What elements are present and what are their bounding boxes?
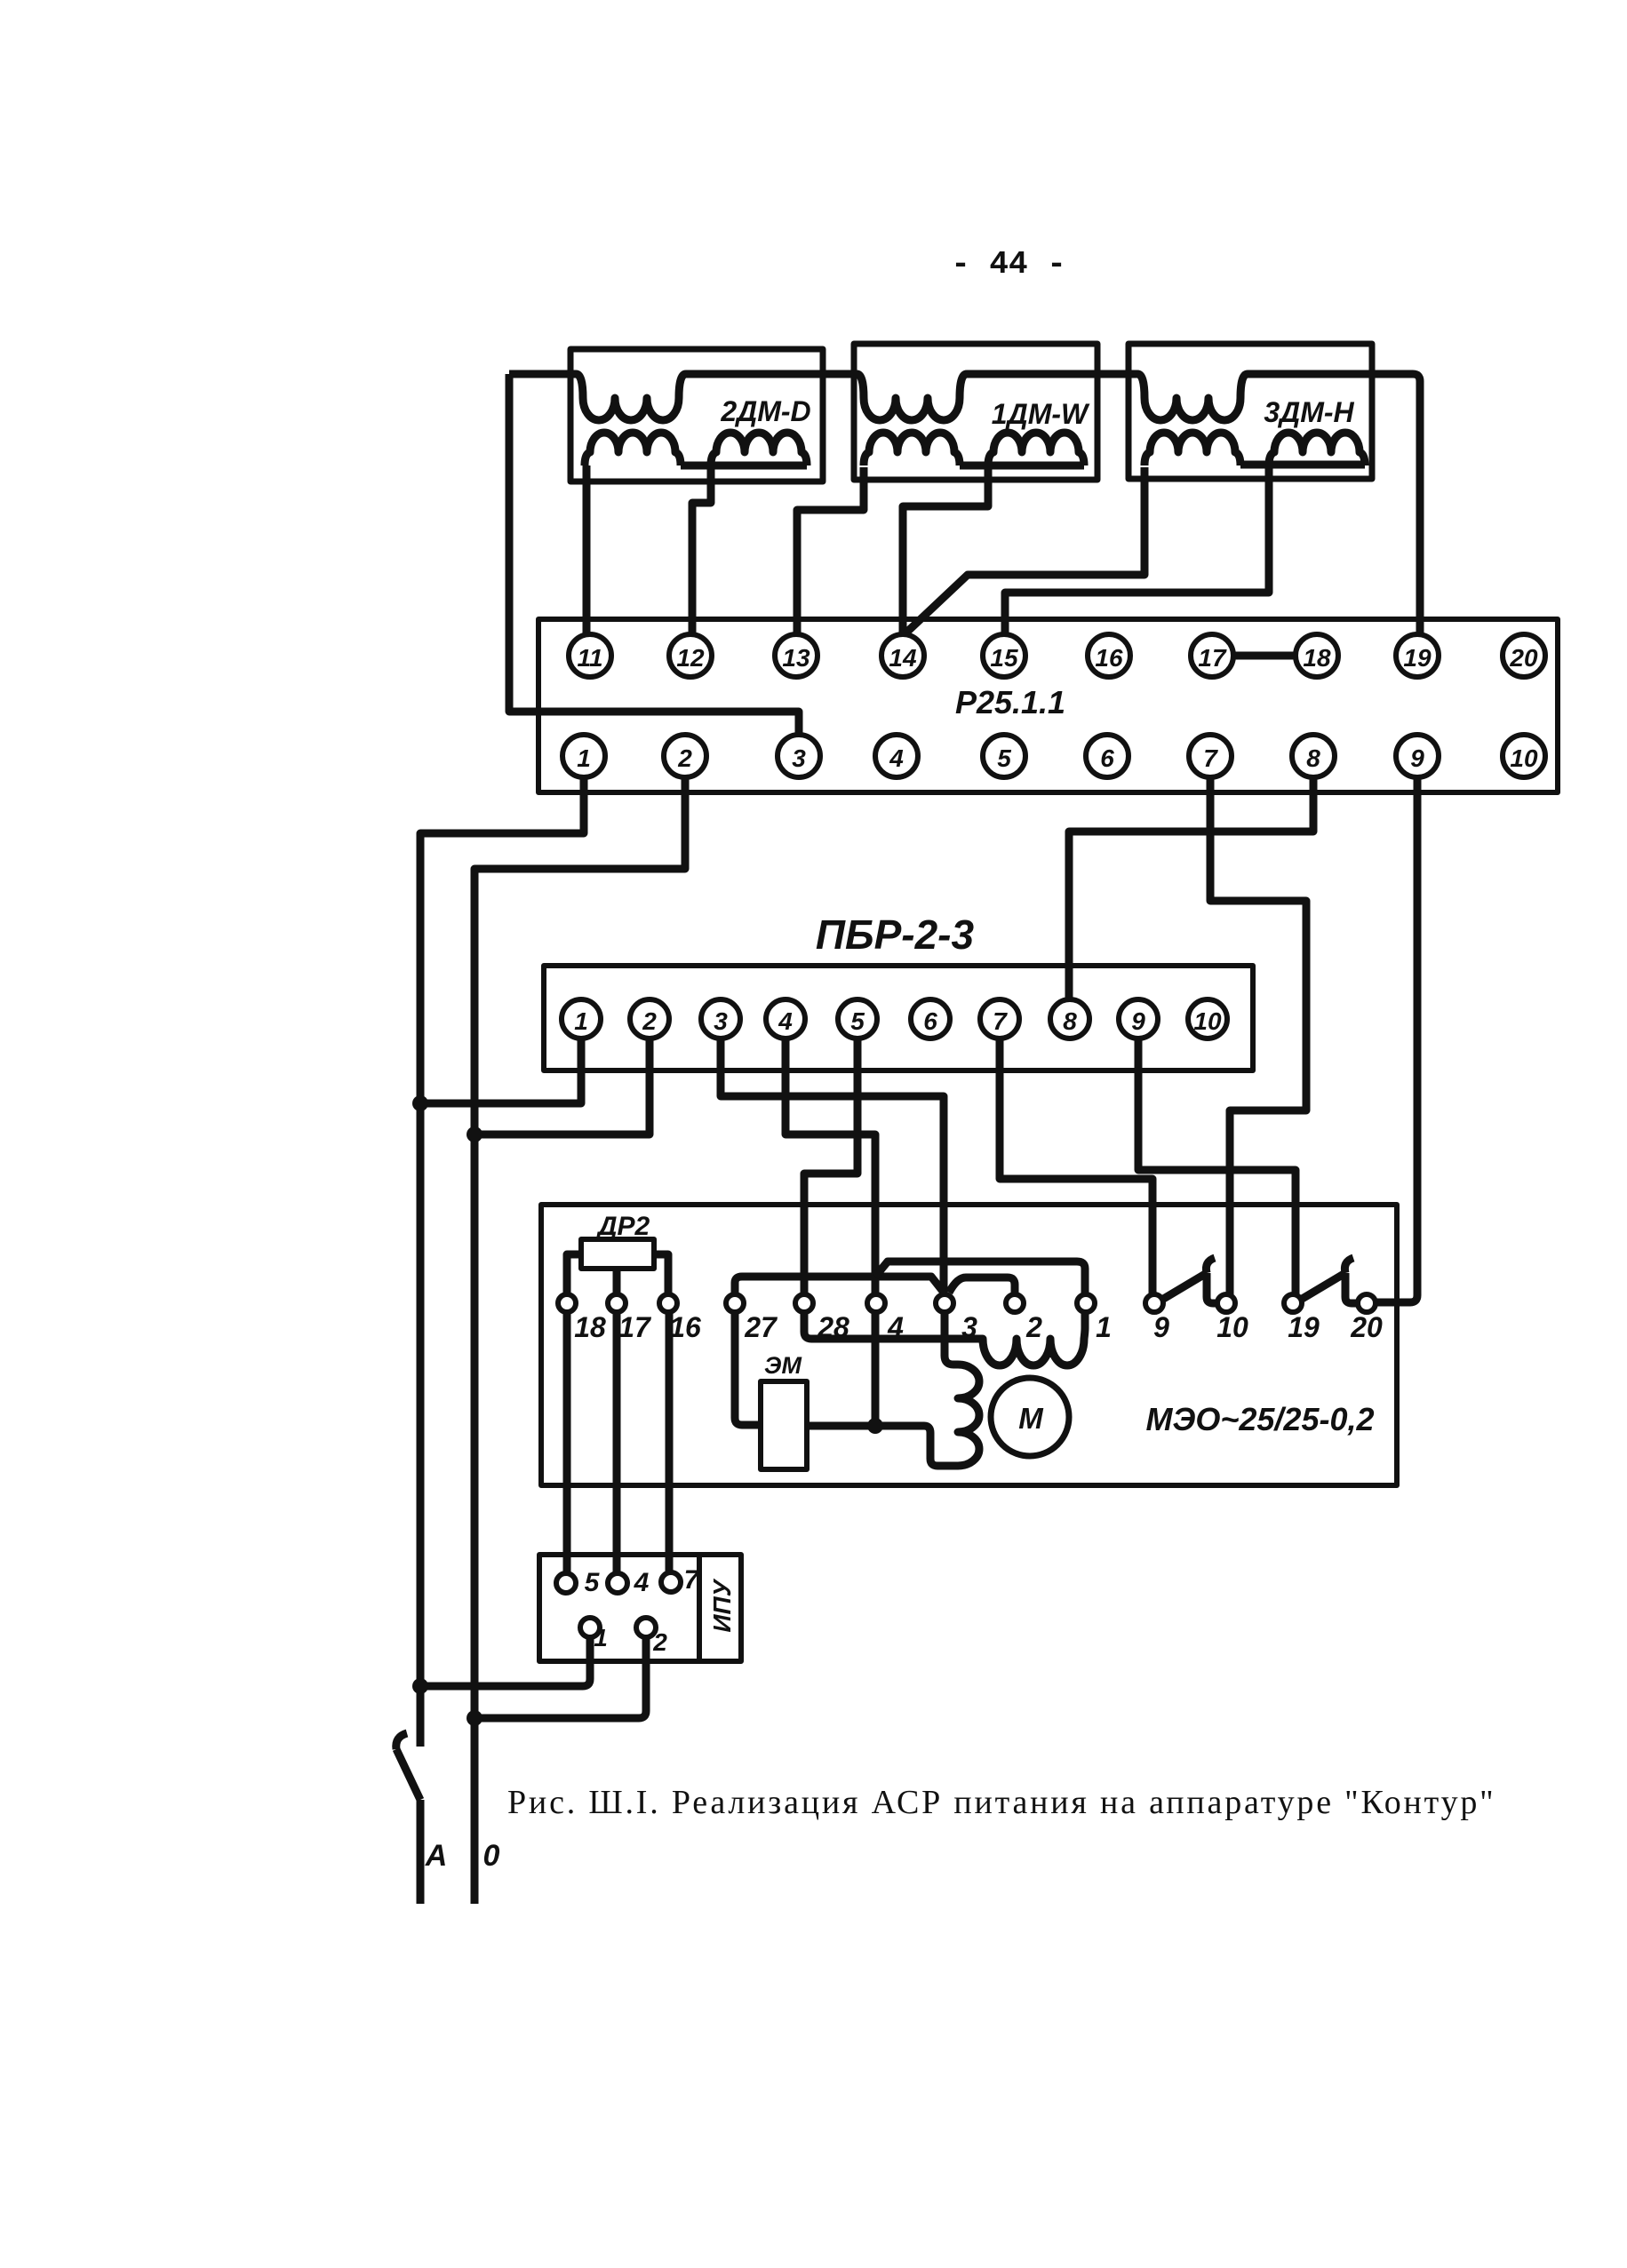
wire ПБР terminal 5 to МЭО terminal 28 (804, 1039, 857, 1294)
terminal 1 of Р25.1.1 (562, 735, 605, 777)
terminal 9 of Р25.1.1 (1396, 735, 1439, 777)
terminal 5 of Р25.1.1 (983, 735, 1025, 777)
terminal 5 of ИПУ (556, 1573, 576, 1593)
svg-text:0: 0 (483, 1839, 500, 1873)
terminal 18 of Р25.1.1 (1296, 634, 1338, 677)
transformer 3ДМ-Н box (1129, 344, 1372, 479)
svg-text:17: 17 (618, 1311, 652, 1343)
svg-text:ДР2: ДР2 (595, 1212, 650, 1241)
wire junction 4 to terminal 1 (875, 1261, 1085, 1294)
wire terminal 8 to ПБР terminal 8 (1069, 777, 1313, 999)
terminal 2 of МЭО (1006, 1294, 1024, 1312)
wire junction to winding bottom (882, 1426, 958, 1466)
wire ПБР terminal 3 to МЭО terminal 3 (721, 1039, 944, 1294)
svg-text:Р25.1.1: Р25.1.1 (955, 684, 1065, 720)
svg-text:4: 4 (889, 744, 904, 772)
svg-text:15: 15 (990, 644, 1018, 672)
wire terminal 17 to ИПУ 4 (613, 1312, 621, 1573)
2ДМ-D secondary winding right half (711, 433, 807, 466)
wire terminal 27 to ЭМ (735, 1312, 761, 1425)
terminal 19 of Р25.1.1 (1396, 634, 1439, 677)
1ДМ-W secondary winding left half (864, 433, 960, 466)
wire ЭМ to junction under terminal 4 (807, 1422, 875, 1430)
svg-text:8: 8 (1306, 744, 1320, 772)
svg-text:Рис. Ш.I. Реализация АСР питан: Рис. Ш.I. Реализация АСР питания на аппа… (507, 1784, 1495, 1821)
terminal 16 of МЭО (659, 1294, 677, 1312)
svg-text:20: 20 (1350, 1311, 1383, 1343)
wire terminal 3 to terminal 2 bridge (949, 1277, 1015, 1294)
svg-text:9: 9 (1153, 1311, 1169, 1343)
terminal 20 of Р25.1.1 (1503, 634, 1545, 677)
svg-text:2: 2 (642, 1007, 657, 1035)
junction under terminal 4 (867, 1418, 883, 1434)
relay block Р25.1.1 box (538, 619, 1558, 792)
limit switch 9-10 blade (1160, 1258, 1217, 1303)
terminal 5 of ПБР-2-3 (838, 999, 877, 1039)
terminal 2 of Р25.1.1 (664, 735, 706, 777)
2ДМ-D secondary winding left half (585, 433, 681, 466)
resistor ДР2 (581, 1239, 654, 1269)
svg-text:МЭО~25/25-0,2: МЭО~25/25-0,2 (1145, 1401, 1374, 1437)
terminal 12 of Р25.1.1 (669, 634, 712, 677)
wire primary bus from node A line to 2ДМ-D (509, 370, 576, 378)
svg-text:16: 16 (669, 1311, 701, 1343)
svg-text:1: 1 (574, 1007, 588, 1035)
actuator block МЭО box (541, 1205, 1397, 1485)
wire primary bus 1ДМ-W to 3ДМ-Н (967, 370, 1137, 378)
terminal 4 of ПБР-2-3 (766, 999, 805, 1039)
wire primary bus down to terminal 3 (509, 374, 799, 735)
wire terminal 1 to phase A line (420, 777, 584, 1747)
wire ПБР terminal 9 to МЭО terminal 19 (1138, 1039, 1296, 1294)
terminal 14 of Р25.1.1 (881, 634, 924, 677)
terminal 6 of Р25.1.1 (1086, 735, 1129, 777)
svg-text:20: 20 (1509, 644, 1538, 672)
terminal 4 of Р25.1.1 (875, 735, 918, 777)
terminal 9 of ПБР-2-3 (1119, 999, 1158, 1039)
svg-text:13: 13 (782, 644, 810, 672)
terminal 17 of МЭО (608, 1294, 626, 1312)
wire terminal 18 to ИПУ 5 (563, 1312, 571, 1573)
wire terminal 2 to neutral 0 line (475, 777, 685, 1904)
transformer 1ДМ-W box (854, 344, 1097, 480)
terminal 1 of ПБР-2-3 (562, 999, 601, 1039)
wire ПБР terminal 1 to phase A line (420, 1039, 581, 1103)
wire 2ДМ-D to terminal 12 (692, 467, 711, 634)
svg-text:16: 16 (1095, 644, 1123, 672)
svg-text:5: 5 (997, 744, 1011, 772)
1ДМ-W primary winding (857, 374, 967, 420)
wire ПБР terminal 7 to МЭО terminal 9 (1000, 1039, 1152, 1295)
svg-text:М: М (1018, 1402, 1044, 1435)
transformer 2ДМ-D box (570, 349, 823, 481)
svg-text:5: 5 (585, 1568, 601, 1597)
terminal 19 of МЭО (1284, 1294, 1302, 1312)
terminal 1 of ИПУ (580, 1618, 600, 1637)
svg-text:ЭМ: ЭМ (764, 1352, 802, 1379)
wire ДР2 to terminal 18 (567, 1254, 581, 1294)
wire 1ДМ-W to terminal 14 (903, 467, 988, 634)
terminal 11 of Р25.1.1 (569, 634, 611, 677)
svg-text:3ДМ-Н: 3ДМ-Н (1264, 396, 1354, 428)
electromagnet ЭМ (761, 1381, 807, 1469)
svg-text:18: 18 (1303, 644, 1331, 672)
svg-text:12: 12 (676, 644, 705, 672)
block ИПУ box (539, 1555, 741, 1661)
svg-text:2: 2 (1025, 1311, 1042, 1343)
terminal 2 of ПБР-2-3 (630, 999, 669, 1039)
svg-text:1: 1 (577, 744, 591, 772)
svg-text:8: 8 (1063, 1007, 1077, 1035)
1ДМ-W secondary return link (960, 462, 1084, 470)
wire 2ДМ-D to terminal 11 (583, 466, 591, 634)
junction on phase A line (412, 1095, 428, 1111)
svg-text:1: 1 (594, 1624, 608, 1651)
junction ИПУ 1 on phase A line (412, 1678, 428, 1694)
junction on neutral 0 line (467, 1126, 483, 1142)
motor vertical winding from terminal 3 (945, 1312, 979, 1466)
3ДМ-Н secondary winding left half (1144, 433, 1240, 466)
switch blade on phase A line (396, 1733, 420, 1800)
svg-text:4: 4 (634, 1568, 650, 1597)
svg-text:3: 3 (792, 744, 806, 772)
phase A line below switch (417, 1800, 425, 1904)
terminal 20 of МЭО (1358, 1294, 1376, 1312)
wire terminal 7 to МЭО terminal 10 (1210, 777, 1306, 1294)
wire ПБР terminal 4 to МЭО terminal 4 (786, 1039, 875, 1294)
terminal 8 of Р25.1.1 (1292, 735, 1335, 777)
wire ИПУ 2 to neutral 0 line (475, 1637, 646, 1718)
motor М (991, 1378, 1069, 1456)
svg-text:4: 4 (778, 1007, 793, 1035)
terminal 10 of МЭО (1217, 1294, 1235, 1312)
3ДМ-Н secondary return link (1240, 461, 1365, 469)
1ДМ-W secondary winding right half (988, 433, 1084, 466)
terminal 6 of ПБР-2-3 (911, 999, 950, 1039)
svg-text:11: 11 (577, 644, 602, 672)
wire primary bus 2ДМ-D to 1ДМ-W (686, 370, 857, 378)
terminal 18 of МЭО (558, 1294, 576, 1312)
terminal 3 of МЭО (936, 1294, 953, 1312)
ИПУ divider (697, 1555, 702, 1661)
block ПБР-2-3 box (544, 966, 1253, 1070)
svg-text:10: 10 (1216, 1311, 1248, 1343)
terminal 3 of Р25.1.1 (778, 735, 820, 777)
svg-text:27: 27 (744, 1311, 778, 1343)
svg-text:2: 2 (677, 744, 692, 772)
svg-text:7: 7 (993, 1007, 1008, 1035)
wire 3ДМ-Н to terminal 14 (905, 467, 1144, 633)
svg-text:6: 6 (923, 1007, 937, 1035)
terminal 7 of ИПУ (661, 1572, 681, 1592)
3ДМ-Н secondary winding right half (1269, 433, 1365, 466)
wire primary bus 3ДМ-Н to terminal 19 (1248, 374, 1420, 634)
junction ИПУ 2 on neutral 0 line (467, 1710, 483, 1726)
2ДМ-D secondary return link (681, 462, 807, 470)
svg-text:10: 10 (1193, 1007, 1222, 1035)
svg-text:9: 9 (1410, 744, 1424, 772)
terminal 7 of ПБР-2-3 (980, 999, 1019, 1039)
terminal 10 of Р25.1.1 (1503, 735, 1545, 777)
terminal 4 of ИПУ (608, 1573, 627, 1593)
wire terminal 4 down to junction (872, 1312, 880, 1426)
wire ИПУ 1 to phase A line (420, 1637, 590, 1686)
svg-text:2ДМ-D: 2ДМ-D (720, 395, 810, 427)
terminal 17 of Р25.1.1 (1191, 634, 1233, 677)
terminal 1 of МЭО (1077, 1294, 1095, 1312)
3ДМ-Н primary winding (1137, 374, 1248, 420)
wire terminal 27 bus to terminal 3 (735, 1277, 945, 1294)
wire 1ДМ-W to terminal 13 (797, 467, 864, 634)
terminal 9 of МЭО (1145, 1294, 1163, 1312)
wire terminal 16 to ИПУ 7 (666, 1312, 674, 1572)
wire terminal 9 to МЭО terminal 20 (1376, 777, 1417, 1302)
motor stator winding 28 to 1 (804, 1312, 1085, 1365)
wire ДР2 to terminal 17 (613, 1269, 621, 1294)
limit switch 19-20 blade (1299, 1258, 1358, 1303)
svg-text:7: 7 (684, 1565, 700, 1595)
svg-text:1: 1 (1096, 1311, 1112, 1343)
terminal 2 of ИПУ (636, 1618, 656, 1637)
svg-text:19: 19 (1288, 1311, 1320, 1343)
svg-text:1ДМ-W: 1ДМ-W (992, 398, 1090, 430)
wire ПБР terminal 2 to neutral 0 line (475, 1039, 650, 1134)
terminal 8 of ПБР-2-3 (1050, 999, 1089, 1039)
terminal 27 of МЭО (726, 1294, 744, 1312)
terminal 10 of ПБР-2-3 (1188, 999, 1227, 1039)
terminal 15 of Р25.1.1 (983, 634, 1025, 677)
svg-text:17: 17 (1198, 644, 1227, 672)
svg-text:А: А (425, 1839, 448, 1873)
svg-text:- 44 -: - 44 - (951, 246, 1066, 283)
wire ДР2 to terminal 16 (654, 1254, 668, 1294)
svg-text:5: 5 (850, 1007, 865, 1035)
svg-text:ПБР-2-3: ПБР-2-3 (816, 911, 975, 958)
wire 3ДМ-Н to terminal 15 (1005, 467, 1269, 634)
svg-text:9: 9 (1131, 1007, 1145, 1035)
terminal 28 of МЭО (795, 1294, 813, 1312)
svg-text:10: 10 (1510, 744, 1538, 772)
svg-text:ИПУ: ИПУ (708, 1578, 736, 1632)
svg-text:14: 14 (889, 644, 917, 672)
2ДМ-D primary winding (576, 374, 686, 420)
svg-text:3: 3 (714, 1007, 728, 1035)
terminal 3 of ПБР-2-3 (701, 999, 740, 1039)
svg-text:19: 19 (1403, 644, 1432, 672)
terminal 16 of Р25.1.1 (1088, 634, 1130, 677)
svg-text:2: 2 (652, 1628, 667, 1656)
svg-text:18: 18 (574, 1311, 606, 1343)
svg-text:7: 7 (1203, 744, 1218, 772)
terminal 7 of Р25.1.1 (1189, 735, 1232, 777)
terminal 4 of МЭО (867, 1294, 885, 1312)
jumper terminal 17 to 18 (1233, 652, 1296, 660)
svg-text:6: 6 (1100, 744, 1114, 772)
terminal 13 of Р25.1.1 (775, 634, 817, 677)
